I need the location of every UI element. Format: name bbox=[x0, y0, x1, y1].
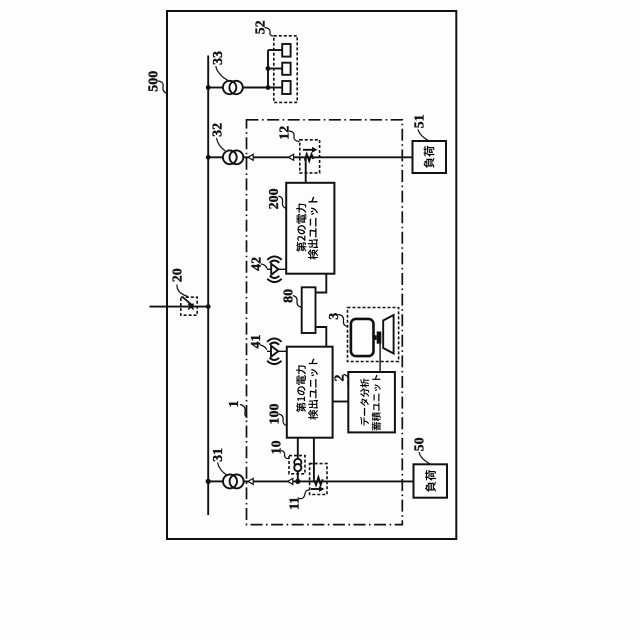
current sensor 10 dashed box bbox=[289, 456, 305, 474]
switch 20 blade bbox=[183, 298, 194, 307]
wire bus to transformer 32 bbox=[208, 156, 223, 158]
leader 2 bbox=[343, 375, 348, 390]
node junction on bus at transformer 33 bbox=[206, 85, 211, 90]
svg-text:31: 31 bbox=[211, 448, 226, 462]
load 52 small rect 3 bbox=[282, 81, 290, 94]
transformer 33 bbox=[223, 81, 236, 94]
arrowhead at box 1 boundary (feeder 2) bbox=[248, 154, 253, 160]
wire transformer 31 to load 50 bbox=[244, 480, 414, 482]
wire bus to transformer 33 bbox=[208, 87, 223, 89]
wire 100 down to sensor 10 bbox=[297, 438, 299, 482]
wire computer to unit 2 bbox=[379, 344, 381, 372]
svg-text:51: 51 bbox=[413, 114, 428, 128]
computer 3 screen bbox=[351, 319, 374, 356]
computer 3 hinge bbox=[377, 332, 382, 344]
transformer 32 bbox=[223, 150, 237, 164]
svg-text:12: 12 bbox=[278, 126, 293, 140]
switch 20 cross bbox=[188, 304, 193, 310]
outer system frame 500 bbox=[167, 11, 456, 539]
node junction sensor to feeder bbox=[295, 479, 300, 484]
svg-text:32: 32 bbox=[210, 123, 225, 137]
wire 80 to 100 bbox=[316, 327, 327, 347]
unit 2 text bbox=[360, 375, 381, 431]
wire 100 to 2 bbox=[333, 401, 349, 403]
load 52 small rect 2 bbox=[282, 63, 290, 75]
node at load group branch bbox=[266, 85, 271, 90]
leader 200 bbox=[278, 196, 286, 208]
arrowhead at box 1 boundary (feeder 1) bbox=[248, 478, 253, 484]
data analysis unit 2 box bbox=[348, 372, 395, 432]
leader 12 bbox=[289, 131, 299, 142]
svg-text:41: 41 bbox=[249, 335, 264, 349]
svg-text:33: 33 bbox=[211, 51, 226, 65]
svg-text:20: 20 bbox=[171, 268, 186, 282]
wire grid line through switch 20 bbox=[150, 306, 209, 308]
computer 3 keyboard bbox=[383, 315, 393, 354]
unit 100 text bbox=[296, 358, 318, 419]
measurement system box 1 (dash-dot) bbox=[247, 120, 403, 525]
antenna 41 bbox=[267, 350, 287, 352]
power detection unit 100 box bbox=[287, 347, 333, 438]
svg-text:50: 50 bbox=[412, 437, 427, 451]
leader 20 bbox=[177, 285, 188, 297]
breaker 11 zigzag bbox=[314, 477, 323, 485]
leader 41 bbox=[260, 345, 267, 350]
node junction on bus at transformer 31 bbox=[206, 479, 211, 484]
transformer 31 bbox=[223, 474, 237, 488]
switch 20 dashed box bbox=[181, 297, 197, 315]
arrowhead before breaker 12 bbox=[288, 154, 293, 160]
leader 31 bbox=[218, 463, 227, 476]
load 51 box bbox=[413, 141, 447, 173]
load group 52 dashed box bbox=[274, 36, 297, 103]
leader 3 bbox=[338, 315, 348, 327]
load 51 text bbox=[424, 146, 435, 168]
wire 200 to 80 bbox=[316, 274, 327, 293]
leader 33 bbox=[216, 66, 230, 81]
leader 80 bbox=[293, 296, 302, 308]
leader 500 bbox=[158, 81, 168, 93]
svg-text:1: 1 bbox=[227, 401, 242, 408]
wire transformer 33 to load group 52 bbox=[243, 87, 268, 89]
svg-text:200: 200 bbox=[267, 188, 282, 209]
load 50 box bbox=[414, 464, 448, 497]
communication unit 80 box bbox=[302, 287, 316, 333]
load 52 small rect 1 bbox=[282, 44, 290, 57]
node at bus bbox=[206, 304, 211, 309]
unit 200 text bbox=[296, 197, 318, 260]
wire breaker 12 down to unit 200 bbox=[305, 159, 307, 183]
breaker 11 arrow bbox=[311, 488, 320, 490]
leader 11 bbox=[299, 490, 310, 499]
wire: main distribution bus bbox=[207, 56, 209, 516]
leader 100 bbox=[279, 414, 287, 426]
wire 100 down to breaker 11 bbox=[313, 438, 315, 480]
breaker 12 zigzag bbox=[305, 154, 314, 161]
leader 50 bbox=[419, 452, 430, 464]
computer 3 dashed box bbox=[348, 308, 399, 362]
leader 1 bbox=[240, 405, 247, 418]
wire bus to transformer 31 bbox=[208, 480, 223, 482]
leader 42 bbox=[261, 264, 267, 269]
svg-text:10: 10 bbox=[270, 440, 285, 454]
sensor 10 coils bbox=[294, 459, 301, 466]
node junction on bus at transformer 32 bbox=[206, 155, 211, 160]
svg-text:3: 3 bbox=[327, 313, 342, 320]
power detection unit 200 box bbox=[286, 183, 334, 274]
wire branch riser bbox=[267, 50, 269, 88]
breaker 12 arrow bbox=[303, 149, 313, 151]
leader 52 bbox=[265, 28, 274, 37]
wire transformer 32 to load 51 bbox=[243, 156, 412, 158]
leader 32 bbox=[217, 138, 226, 151]
leader 10 bbox=[281, 451, 289, 459]
antenna 42 bbox=[267, 268, 286, 270]
breaker 12 dashed box bbox=[300, 140, 320, 173]
load 50 text bbox=[425, 470, 436, 492]
breaker 11 dashed box bbox=[310, 464, 327, 495]
leader 51 bbox=[418, 130, 429, 141]
arrowhead before junction 10 bbox=[288, 478, 293, 484]
svg-text:2: 2 bbox=[332, 375, 347, 382]
